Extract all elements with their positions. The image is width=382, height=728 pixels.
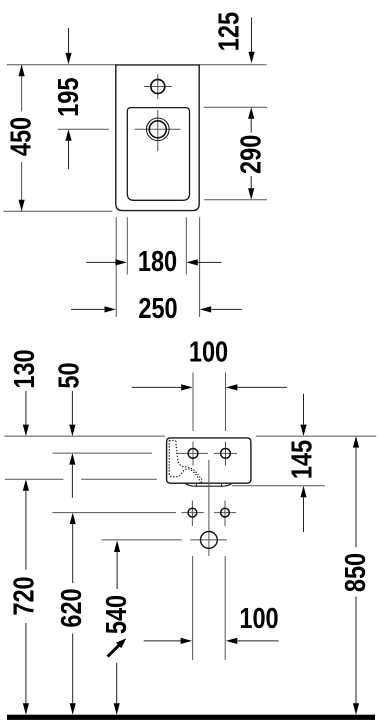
- dim 850 arrow up at rim line: [353, 436, 359, 448]
- dim 720 lower line + floor arrow: [25, 623, 27, 703]
- svg-text:620: 620: [56, 588, 88, 627]
- svg-text:720: 720: [9, 576, 41, 615]
- svg-text:250: 250: [138, 293, 177, 325]
- fixing hole level line: [52, 512, 176, 514]
- fixing hole left: [188, 508, 197, 517]
- svg-text:145: 145: [287, 440, 319, 479]
- dim 250 left arrow: [71, 308, 105, 310]
- svg-text:450: 450: [6, 117, 38, 156]
- hidden drain (dashed): [195, 479, 202, 484]
- svg-text:290: 290: [236, 135, 268, 174]
- dim 125 arrow down: [251, 18, 253, 52]
- dim 130 arrow down: [25, 391, 27, 425]
- 145 bottom ref line: [232, 485, 325, 487]
- svg-text:100: 100: [239, 603, 278, 635]
- basin inner bowl (plan): [127, 108, 189, 201]
- dim line top right segment: [199, 64, 266, 66]
- basin front body: [167, 438, 251, 483]
- dim 620 lower line + floor arrow: [72, 634, 74, 704]
- faucet hole front right: [221, 449, 231, 459]
- ext line 100-top left: [192, 372, 194, 431]
- ext line below basin: 180 right: [185, 217, 187, 274]
- dim 290 arrow up: [248, 107, 254, 119]
- faucet hole front left crosshair: [176, 452, 208, 454]
- faucet inner circle: [149, 121, 166, 138]
- faucet hole front left: [188, 449, 198, 459]
- faucet outer circle: [147, 118, 170, 141]
- rim level line left: [4, 435, 165, 437]
- svg-text:540: 540: [101, 595, 133, 634]
- dim 100-bottom left arrow: [144, 640, 181, 642]
- ext line below basin: bowl left: [126, 217, 128, 274]
- faucet hole front right crosshair: [214, 452, 237, 454]
- dim 145 arrow up (bottom): [300, 486, 306, 498]
- trap circle: [201, 532, 218, 549]
- dim 450 line lower segment: [21, 162, 23, 211]
- dim 250 right arrow: [200, 306, 212, 312]
- dim 540 diagonal leader arrow: [108, 645, 119, 656]
- dim 620 arrow up at fixing line: [70, 513, 76, 525]
- dim 180 left arrow: [86, 261, 116, 263]
- dim 540 lower line + floor arrow: [116, 663, 118, 703]
- dim line top (y=64.7) left segment: [7, 64, 116, 66]
- fixing hole right crosshair: [214, 512, 236, 514]
- dim 180 right arrow: [186, 259, 198, 265]
- ext line 100-top right: [225, 372, 227, 431]
- rim level line right: [256, 435, 376, 437]
- dim 850 lower line + floor arrow: [355, 597, 357, 704]
- hidden bowl profile (dashed) outer: [169, 440, 200, 482]
- dim 450 arrow down: [19, 200, 25, 212]
- dim 100-top right arrow: [226, 384, 238, 390]
- svg-text:180: 180: [138, 246, 177, 278]
- fixing hole right: [221, 508, 230, 517]
- dim 100-bottom right arrow: [226, 638, 238, 644]
- dim 50 arrow down: [71, 391, 73, 425]
- faucet level line (B): [52, 452, 152, 454]
- dim line bottom (y=211.2): [3, 210, 112, 212]
- ext line 100-bottom right: [224, 556, 226, 660]
- fixing hole left crosshair: [181, 512, 203, 514]
- svg-text:850: 850: [340, 553, 372, 592]
- dim 100-top left arrow: [132, 386, 181, 388]
- hidden bowl profile (dashed) inner: [169, 441, 201, 479]
- floor bar: [7, 715, 375, 720]
- ext line below basin: outer right: [199, 217, 201, 317]
- trap crosshair: [190, 539, 227, 541]
- line C left piece: [5, 478, 64, 480]
- dim 195 arrow down (top): [68, 28, 70, 54]
- dim 450 arrow up: [19, 65, 25, 77]
- dim 50 arrow up at line B: [69, 453, 75, 465]
- trap level line: [102, 539, 182, 541]
- line C right piece: [81, 478, 157, 480]
- svg-text:130: 130: [9, 349, 41, 388]
- svg-text:195: 195: [53, 77, 85, 116]
- dim 290 top ref line: [204, 106, 268, 108]
- faucet crosshair: [135, 128, 181, 130]
- drain tab under basin: [186, 484, 232, 487]
- dim 195 ref line (faucet centre): [58, 128, 109, 130]
- dim 130/720 shared arrow up at line C: [23, 479, 29, 491]
- ext line below basin: outer left: [115, 217, 117, 317]
- basin outer rim (plan): [116, 65, 199, 211]
- tap hole circle: [151, 80, 165, 94]
- dim 195 arrow up (bottom): [68, 141, 70, 170]
- tap hole crosshair: [144, 86, 172, 88]
- svg-text:125: 125: [213, 12, 245, 51]
- svg-text:50: 50: [54, 362, 86, 388]
- dim 450 line upper segment: [21, 65, 23, 112]
- dim 145 arrow down (top): [303, 394, 305, 425]
- svg-text:100: 100: [189, 337, 228, 369]
- dim 290 bottom ref line: [204, 199, 267, 201]
- ext line 100-bottom left: [192, 556, 194, 660]
- dim 540 arrow up at trap line: [114, 541, 120, 553]
- dim 290 arrow down: [250, 176, 252, 188]
